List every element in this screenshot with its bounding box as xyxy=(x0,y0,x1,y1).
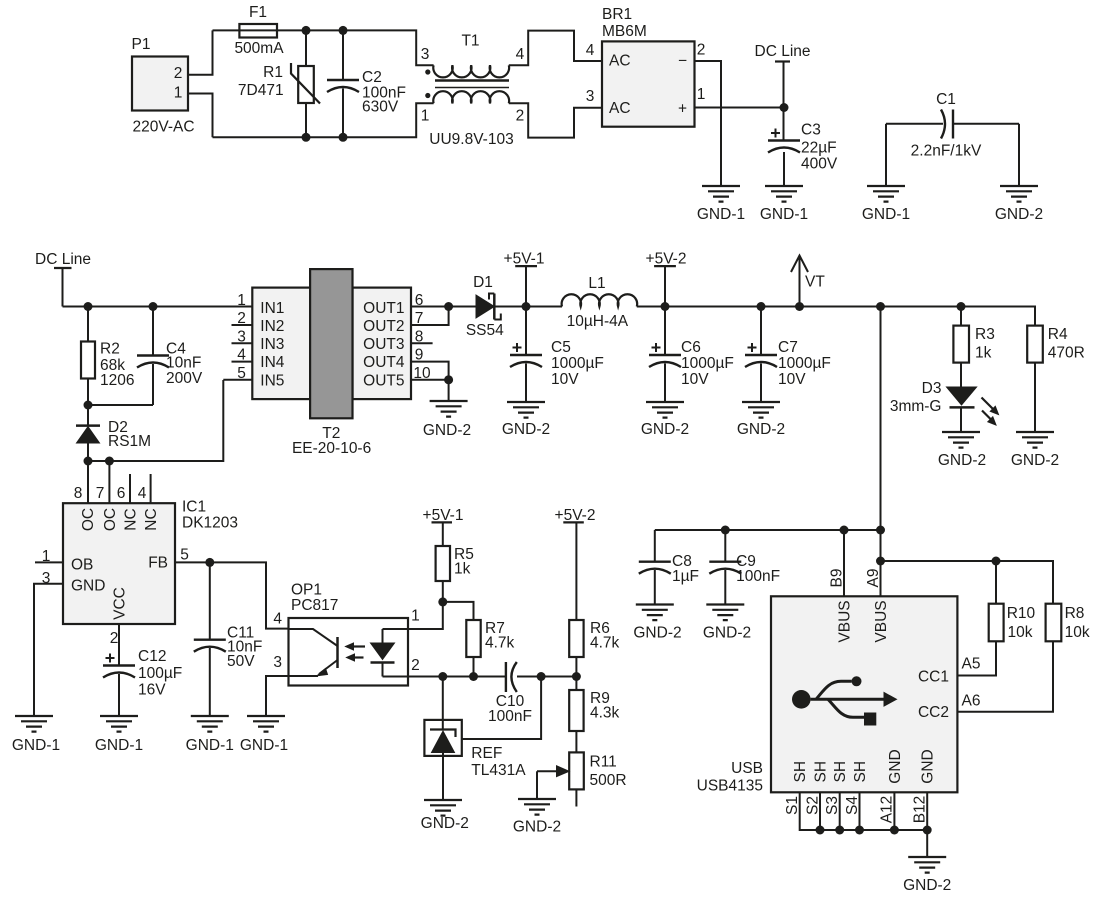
svg-text:1: 1 xyxy=(421,108,430,125)
wire xyxy=(880,307,882,597)
wire xyxy=(509,103,602,137)
svg-text:OUT2: OUT2 xyxy=(363,318,404,335)
svg-text:470R: 470R xyxy=(1048,345,1085,362)
svg-text:1206: 1206 xyxy=(100,372,134,389)
svg-text:DC Line: DC Line xyxy=(755,43,811,60)
svg-text:OUT1: OUT1 xyxy=(363,300,404,317)
node junction xyxy=(149,302,158,311)
diode D2 xyxy=(87,405,89,426)
ground xyxy=(518,799,556,815)
svg-text:OB: OB xyxy=(71,557,93,574)
diode D1 xyxy=(476,295,494,318)
node phase dot xyxy=(425,93,430,98)
node junction xyxy=(469,672,478,681)
wire xyxy=(881,561,1054,604)
svg-text:TL431A: TL431A xyxy=(471,762,526,779)
svg-text:VBUS: VBUS xyxy=(873,600,890,642)
node phase dot xyxy=(425,69,430,74)
svg-text:DK1203: DK1203 xyxy=(182,515,238,532)
svg-text:1: 1 xyxy=(237,292,246,309)
shunt reference REF TL431A xyxy=(442,677,444,730)
wire xyxy=(88,380,252,461)
svg-text:1: 1 xyxy=(697,86,706,103)
svg-text:AC: AC xyxy=(609,100,631,117)
svg-text:3: 3 xyxy=(273,654,282,671)
svg-text:S4: S4 xyxy=(844,796,861,815)
svg-text:4: 4 xyxy=(138,485,147,502)
svg-text:GND-2: GND-2 xyxy=(938,452,986,469)
svg-text:USB: USB xyxy=(731,760,763,777)
svg-text:R3: R3 xyxy=(975,326,995,343)
wire xyxy=(1018,124,1020,186)
svg-text:4: 4 xyxy=(273,611,282,628)
svg-text:10k: 10k xyxy=(1008,624,1033,641)
capacitor C6 xyxy=(664,307,666,356)
svg-text:GND-2: GND-2 xyxy=(421,815,469,832)
node junction xyxy=(84,401,93,410)
svg-text:GND-2: GND-2 xyxy=(703,625,751,642)
svg-text:SH: SH xyxy=(792,761,809,783)
svg-text:A5: A5 xyxy=(962,656,981,673)
svg-text:10k: 10k xyxy=(1065,624,1090,641)
svg-text:4: 4 xyxy=(516,46,525,63)
svg-text:DC Line: DC Line xyxy=(35,251,91,268)
svg-text:OUT3: OUT3 xyxy=(363,336,404,353)
LED D3 xyxy=(947,387,977,405)
svg-text:GND-1: GND-1 xyxy=(240,737,288,754)
svg-text:GND-1: GND-1 xyxy=(12,737,60,754)
capacitor C4 xyxy=(152,307,154,356)
wire xyxy=(509,31,602,66)
node junction xyxy=(302,133,311,142)
svg-text:SS54: SS54 xyxy=(466,322,504,339)
wire xyxy=(957,641,996,675)
svg-text:GND-2: GND-2 xyxy=(502,421,550,438)
ground xyxy=(742,402,780,418)
wire xyxy=(188,94,213,138)
node junction xyxy=(537,672,546,681)
wire xyxy=(655,529,881,531)
node junction xyxy=(757,302,766,311)
svg-text:500mA: 500mA xyxy=(234,40,284,57)
node junction xyxy=(876,302,885,311)
node junction xyxy=(876,526,885,535)
node junction xyxy=(84,302,93,311)
svg-text:400V: 400V xyxy=(801,156,838,173)
wire xyxy=(462,677,541,740)
wire xyxy=(411,306,476,308)
wire xyxy=(408,676,506,678)
transformer T2 xyxy=(252,288,310,400)
svg-text:1: 1 xyxy=(411,608,420,625)
node junction xyxy=(438,672,447,681)
node junction xyxy=(992,557,1001,566)
node junction xyxy=(522,302,531,311)
svg-text:UU9.8V-103: UU9.8V-103 xyxy=(429,131,513,148)
capacitor C2 xyxy=(342,30,344,80)
svg-text:5: 5 xyxy=(237,365,246,382)
svg-text:GND: GND xyxy=(920,749,937,783)
svg-text:4.3k: 4.3k xyxy=(590,705,620,722)
svg-text:3: 3 xyxy=(586,88,595,105)
connector P1 xyxy=(132,57,188,111)
svg-text:200V: 200V xyxy=(166,370,203,387)
svg-text:GND-1: GND-1 xyxy=(95,737,143,754)
resistor R4 xyxy=(1027,326,1043,363)
svg-text:10µH-4A: 10µH-4A xyxy=(567,313,629,330)
svg-text:GND-1: GND-1 xyxy=(186,737,234,754)
svg-text:R1: R1 xyxy=(263,64,283,81)
node junction xyxy=(105,457,114,466)
svg-text:10V: 10V xyxy=(778,371,806,388)
svg-text:22µF: 22µF xyxy=(801,140,837,157)
svg-text:SH: SH xyxy=(813,761,830,783)
svg-text:AC: AC xyxy=(609,53,631,70)
svg-text:R4: R4 xyxy=(1048,326,1068,343)
svg-text:10V: 10V xyxy=(551,371,579,388)
svg-text:GND-1: GND-1 xyxy=(760,206,808,223)
svg-text:IN1: IN1 xyxy=(260,300,284,317)
svg-text:1000µF: 1000µF xyxy=(778,355,831,372)
capacitor C10 xyxy=(505,662,507,692)
ground xyxy=(191,716,229,732)
wire xyxy=(188,30,213,74)
svg-text:GND: GND xyxy=(71,578,105,595)
wire xyxy=(266,676,289,716)
node junction xyxy=(84,457,93,466)
wire xyxy=(926,830,928,857)
svg-text:EE-20-10-6: EE-20-10-6 xyxy=(292,440,371,457)
svg-text:500R: 500R xyxy=(590,772,627,789)
svg-text:C2: C2 xyxy=(362,69,382,86)
svg-text:4: 4 xyxy=(237,347,246,364)
ground xyxy=(646,402,684,418)
svg-text:GND-2: GND-2 xyxy=(903,877,951,894)
svg-text:OP1: OP1 xyxy=(291,582,322,599)
wire xyxy=(494,306,562,308)
wire xyxy=(995,561,997,604)
ground xyxy=(765,186,803,202)
svg-text:T1: T1 xyxy=(461,33,479,50)
ground xyxy=(706,605,744,621)
svg-text:4: 4 xyxy=(586,42,595,59)
svg-text:NC: NC xyxy=(123,508,140,530)
wire xyxy=(885,124,887,186)
svg-text:L1: L1 xyxy=(588,275,605,292)
svg-text:2: 2 xyxy=(697,42,706,59)
svg-text:100µF: 100µF xyxy=(138,665,182,682)
svg-text:3mm-G: 3mm-G xyxy=(890,398,942,415)
svg-text:5: 5 xyxy=(180,547,189,564)
svg-text:OUT5: OUT5 xyxy=(363,372,404,389)
svg-text:S2: S2 xyxy=(804,796,821,815)
resistor R9 xyxy=(569,690,583,731)
ground xyxy=(702,186,740,202)
svg-text:1k: 1k xyxy=(975,345,992,362)
node junction xyxy=(339,26,348,35)
svg-text:VT: VT xyxy=(805,274,825,291)
bridge rectifier BR1 xyxy=(602,41,695,126)
wire xyxy=(35,561,63,563)
svg-text:GND-2: GND-2 xyxy=(995,206,1043,223)
resistor R3 xyxy=(957,302,966,311)
potentiometer R11 xyxy=(569,752,584,789)
svg-text:IN3: IN3 xyxy=(260,336,284,353)
svg-text:P1: P1 xyxy=(132,36,151,53)
svg-text:USB4135: USB4135 xyxy=(697,778,763,795)
svg-text:C6: C6 xyxy=(681,339,701,356)
capacitor C11 xyxy=(209,562,211,639)
wire xyxy=(411,342,433,344)
op-amp IC1 body xyxy=(63,503,175,624)
svg-text:GND-1: GND-1 xyxy=(697,206,745,223)
svg-text:D1: D1 xyxy=(473,274,493,291)
capacitor C3 xyxy=(768,141,800,153)
wire xyxy=(695,107,785,109)
ground xyxy=(424,800,462,816)
svg-text:VBUS: VBUS xyxy=(837,600,854,642)
USB logo xyxy=(811,681,884,717)
capacitor C9 xyxy=(724,530,726,562)
svg-text:R8: R8 xyxy=(1065,605,1085,622)
node junction xyxy=(444,302,453,311)
svg-text:RS1M: RS1M xyxy=(108,433,151,450)
wire xyxy=(63,306,253,308)
svg-text:1µF: 1µF xyxy=(672,568,699,585)
svg-text:7: 7 xyxy=(96,485,105,502)
svg-text:+5V-1: +5V-1 xyxy=(504,251,545,268)
ground xyxy=(247,716,285,732)
wire xyxy=(150,474,152,503)
ground xyxy=(908,857,946,873)
capacitor C12 xyxy=(118,624,120,666)
svg-text:10V: 10V xyxy=(681,371,709,388)
svg-text:220V-AC: 220V-AC xyxy=(132,119,194,136)
svg-text:PC817: PC817 xyxy=(291,597,338,614)
ground xyxy=(430,401,468,417)
svg-text:A9: A9 xyxy=(865,569,882,588)
svg-text:A12: A12 xyxy=(879,796,896,824)
svg-text:2: 2 xyxy=(110,630,119,647)
wire xyxy=(443,602,474,620)
svg-text:MB6M: MB6M xyxy=(602,23,647,40)
svg-text:GND: GND xyxy=(887,749,904,783)
svg-text:OUT4: OUT4 xyxy=(363,354,405,371)
svg-text:4.7k: 4.7k xyxy=(485,635,515,652)
varistor R1 xyxy=(305,30,307,66)
wire xyxy=(411,380,449,401)
wire xyxy=(88,404,153,406)
svg-text:NC: NC xyxy=(143,508,160,530)
svg-text:1000µF: 1000µF xyxy=(551,355,604,372)
wire xyxy=(408,602,443,629)
svg-text:R10: R10 xyxy=(1007,605,1036,622)
svg-text:R2: R2 xyxy=(100,341,120,358)
svg-text:1: 1 xyxy=(174,85,183,102)
svg-text:FB: FB xyxy=(148,555,168,572)
svg-text:4.7k: 4.7k xyxy=(590,635,620,652)
svg-text:2: 2 xyxy=(516,108,525,125)
svg-text:OC: OC xyxy=(80,508,97,531)
USB connector USB4135 xyxy=(771,596,957,792)
resistor R8 xyxy=(1046,604,1062,642)
node junction xyxy=(438,597,447,606)
svg-text:6: 6 xyxy=(117,485,126,502)
wire xyxy=(411,307,449,326)
svg-text:3: 3 xyxy=(421,46,430,63)
resistor R7 xyxy=(466,620,480,657)
node junction xyxy=(890,826,899,835)
wire xyxy=(232,342,253,344)
wire xyxy=(232,324,253,326)
resistor R6 xyxy=(569,620,583,657)
svg-text:C12: C12 xyxy=(138,648,166,665)
node VT xyxy=(799,256,801,307)
wire xyxy=(537,770,557,772)
svg-text:GND-2: GND-2 xyxy=(737,421,785,438)
svg-text:16V: 16V xyxy=(138,682,166,699)
node junction xyxy=(835,826,844,835)
svg-text:C1: C1 xyxy=(936,91,956,108)
svg-text:VCC: VCC xyxy=(112,587,129,620)
svg-text:GND-2: GND-2 xyxy=(633,625,681,642)
svg-text:50V: 50V xyxy=(227,653,255,670)
node junction xyxy=(302,26,311,35)
svg-text:REF: REF xyxy=(471,745,502,762)
svg-text:−: − xyxy=(678,53,687,70)
resistor R5 xyxy=(436,546,450,581)
svg-text:8: 8 xyxy=(74,485,83,502)
svg-text:BR1: BR1 xyxy=(602,6,632,23)
svg-text:2: 2 xyxy=(174,65,183,82)
wire xyxy=(213,103,434,137)
svg-text:1000µF: 1000µF xyxy=(681,355,734,372)
svg-text:10nF: 10nF xyxy=(166,355,201,372)
svg-text:GND-2: GND-2 xyxy=(513,819,561,836)
ground xyxy=(867,186,905,202)
svg-text:IC1: IC1 xyxy=(182,499,206,516)
wire xyxy=(800,792,928,830)
node junction xyxy=(444,375,453,384)
node junction xyxy=(572,672,581,681)
svg-text:CC2: CC2 xyxy=(918,704,949,721)
svg-text:IN5: IN5 xyxy=(260,372,284,389)
fuse F1 xyxy=(239,24,277,38)
svg-text:100nF: 100nF xyxy=(488,708,532,725)
node junction xyxy=(816,826,825,835)
node junction xyxy=(339,133,348,142)
wire xyxy=(637,307,1035,326)
svg-text:CC1: CC1 xyxy=(918,669,949,686)
svg-text:B9: B9 xyxy=(829,569,846,588)
svg-text:SH: SH xyxy=(832,761,849,783)
svg-text:A6: A6 xyxy=(962,693,981,710)
ground xyxy=(1016,432,1054,448)
wire xyxy=(213,30,434,65)
svg-text:2: 2 xyxy=(411,657,420,674)
svg-text:IN4: IN4 xyxy=(260,354,285,371)
svg-text:1k: 1k xyxy=(454,561,471,578)
node junction xyxy=(855,826,864,835)
node junction xyxy=(923,826,932,835)
wire xyxy=(957,641,1053,711)
svg-text:C5: C5 xyxy=(551,339,571,356)
svg-text:S3: S3 xyxy=(824,796,841,815)
svg-text:GND-1: GND-1 xyxy=(862,206,910,223)
svg-text:7D471: 7D471 xyxy=(238,82,284,99)
ground xyxy=(100,716,138,732)
svg-text:GND-2: GND-2 xyxy=(423,422,471,439)
svg-text:OC: OC xyxy=(102,508,119,531)
svg-text:100nF: 100nF xyxy=(736,568,780,585)
resistor R10 xyxy=(989,604,1004,642)
svg-text:D3: D3 xyxy=(922,380,942,397)
node junction xyxy=(205,558,214,567)
node junction xyxy=(721,526,730,535)
capacitor C8 xyxy=(654,530,656,562)
svg-text:3: 3 xyxy=(237,328,246,345)
ground xyxy=(507,402,545,418)
svg-text:C3: C3 xyxy=(801,122,821,139)
capacitor C5 xyxy=(525,307,527,356)
svg-text:R11: R11 xyxy=(590,754,617,771)
svg-text:630V: 630V xyxy=(362,99,399,116)
resistor R2 xyxy=(87,307,89,342)
wire xyxy=(129,474,131,503)
wire xyxy=(843,530,845,596)
svg-text:SH: SH xyxy=(852,761,869,783)
svg-text:C7: C7 xyxy=(778,339,798,356)
svg-text:+: + xyxy=(678,101,687,118)
node junction xyxy=(840,526,849,535)
svg-text:GND-2: GND-2 xyxy=(1011,452,1059,469)
node junction xyxy=(876,557,885,566)
ground xyxy=(1000,186,1038,202)
svg-text:+5V-2: +5V-2 xyxy=(646,251,687,268)
wire xyxy=(411,362,449,380)
svg-text:2: 2 xyxy=(237,310,246,327)
svg-text:F1: F1 xyxy=(249,4,267,21)
svg-text:2.2nF/1kV: 2.2nF/1kV xyxy=(911,143,982,160)
svg-text:S1: S1 xyxy=(784,796,801,815)
svg-text:GND-2: GND-2 xyxy=(641,421,689,438)
svg-text:B12: B12 xyxy=(912,796,929,824)
ground xyxy=(15,716,53,732)
wire xyxy=(695,61,722,186)
node junction xyxy=(661,302,670,311)
ground xyxy=(636,605,674,621)
wire xyxy=(108,461,110,503)
wire xyxy=(87,461,89,503)
wire xyxy=(232,361,253,363)
wire xyxy=(175,562,289,628)
ground xyxy=(942,432,980,448)
wire xyxy=(34,584,63,716)
svg-text:IN2: IN2 xyxy=(260,318,284,335)
